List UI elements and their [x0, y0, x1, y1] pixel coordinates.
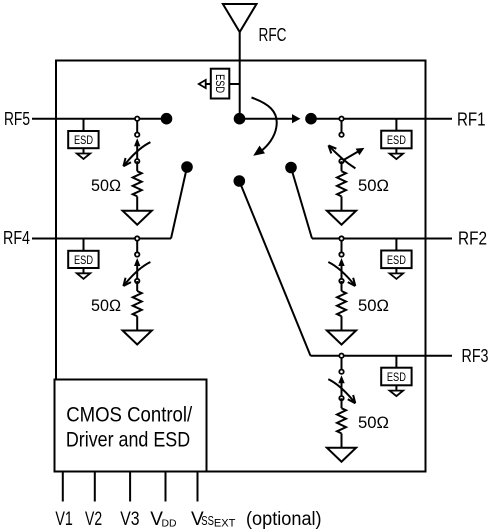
- svg-text:(optional): (optional): [246, 509, 322, 530]
- svg-text:DD: DD: [162, 518, 177, 530]
- svg-text:RF3: RF3: [462, 346, 489, 366]
- svg-text:50Ω: 50Ω: [91, 176, 121, 195]
- svg-text:ESD: ESD: [387, 255, 406, 267]
- svg-text:50Ω: 50Ω: [358, 413, 389, 432]
- svg-text:ESD: ESD: [74, 135, 93, 147]
- svg-text:50Ω: 50Ω: [358, 176, 389, 195]
- svg-text:ESD: ESD: [387, 372, 406, 384]
- svg-text:V3: V3: [120, 509, 139, 530]
- svg-text:V2: V2: [85, 509, 102, 530]
- svg-text:CMOS Control/: CMOS Control/: [66, 404, 192, 427]
- svg-text:EXT: EXT: [214, 517, 236, 529]
- svg-text:RF2: RF2: [458, 229, 487, 249]
- svg-text:ESD: ESD: [74, 255, 93, 267]
- svg-text:ESD: ESD: [213, 74, 225, 93]
- svg-text:RF1: RF1: [457, 109, 486, 129]
- svg-text:Driver and ESD: Driver and ESD: [66, 429, 190, 452]
- svg-text:RF5: RF5: [4, 109, 30, 129]
- svg-text:SS: SS: [201, 513, 214, 528]
- svg-text:ESD: ESD: [387, 135, 406, 147]
- svg-text:50Ω: 50Ω: [358, 296, 389, 315]
- svg-text:V1: V1: [55, 509, 73, 530]
- svg-text:50Ω: 50Ω: [91, 296, 121, 315]
- svg-text:RFC: RFC: [259, 25, 287, 45]
- svg-text:RF4: RF4: [3, 228, 30, 248]
